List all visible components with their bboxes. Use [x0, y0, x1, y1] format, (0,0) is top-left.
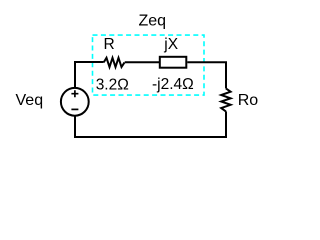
wire Ro bottom, bottom run, up to source bottom: [75, 111, 226, 137]
svg-text:Zeq: Zeq: [139, 12, 167, 29]
reactance jX box: [160, 57, 187, 68]
source Veq circle: [61, 88, 89, 116]
Zeq dashed boundary box: [93, 35, 205, 95]
svg-text:Ro: Ro: [238, 92, 259, 109]
wire jX to top-right corner and down to Ro: [187, 62, 226, 88]
svg-text:Veq: Veq: [16, 92, 44, 109]
svg-text:3.2Ω: 3.2Ω: [96, 76, 129, 93]
resistor Ro zigzag: [221, 88, 230, 111]
wire top-left: source top to resistor R: [75, 62, 104, 88]
wire between R and jX: [125, 61, 159, 63]
minus sign: [71, 108, 78, 110]
svg-text:R: R: [104, 36, 115, 53]
svg-text:jX: jX: [163, 36, 178, 53]
svg-text:-j2.4Ω: -j2.4Ω: [152, 76, 194, 93]
plus sign: [71, 90, 78, 97]
resistor R zigzag: [104, 58, 125, 67]
